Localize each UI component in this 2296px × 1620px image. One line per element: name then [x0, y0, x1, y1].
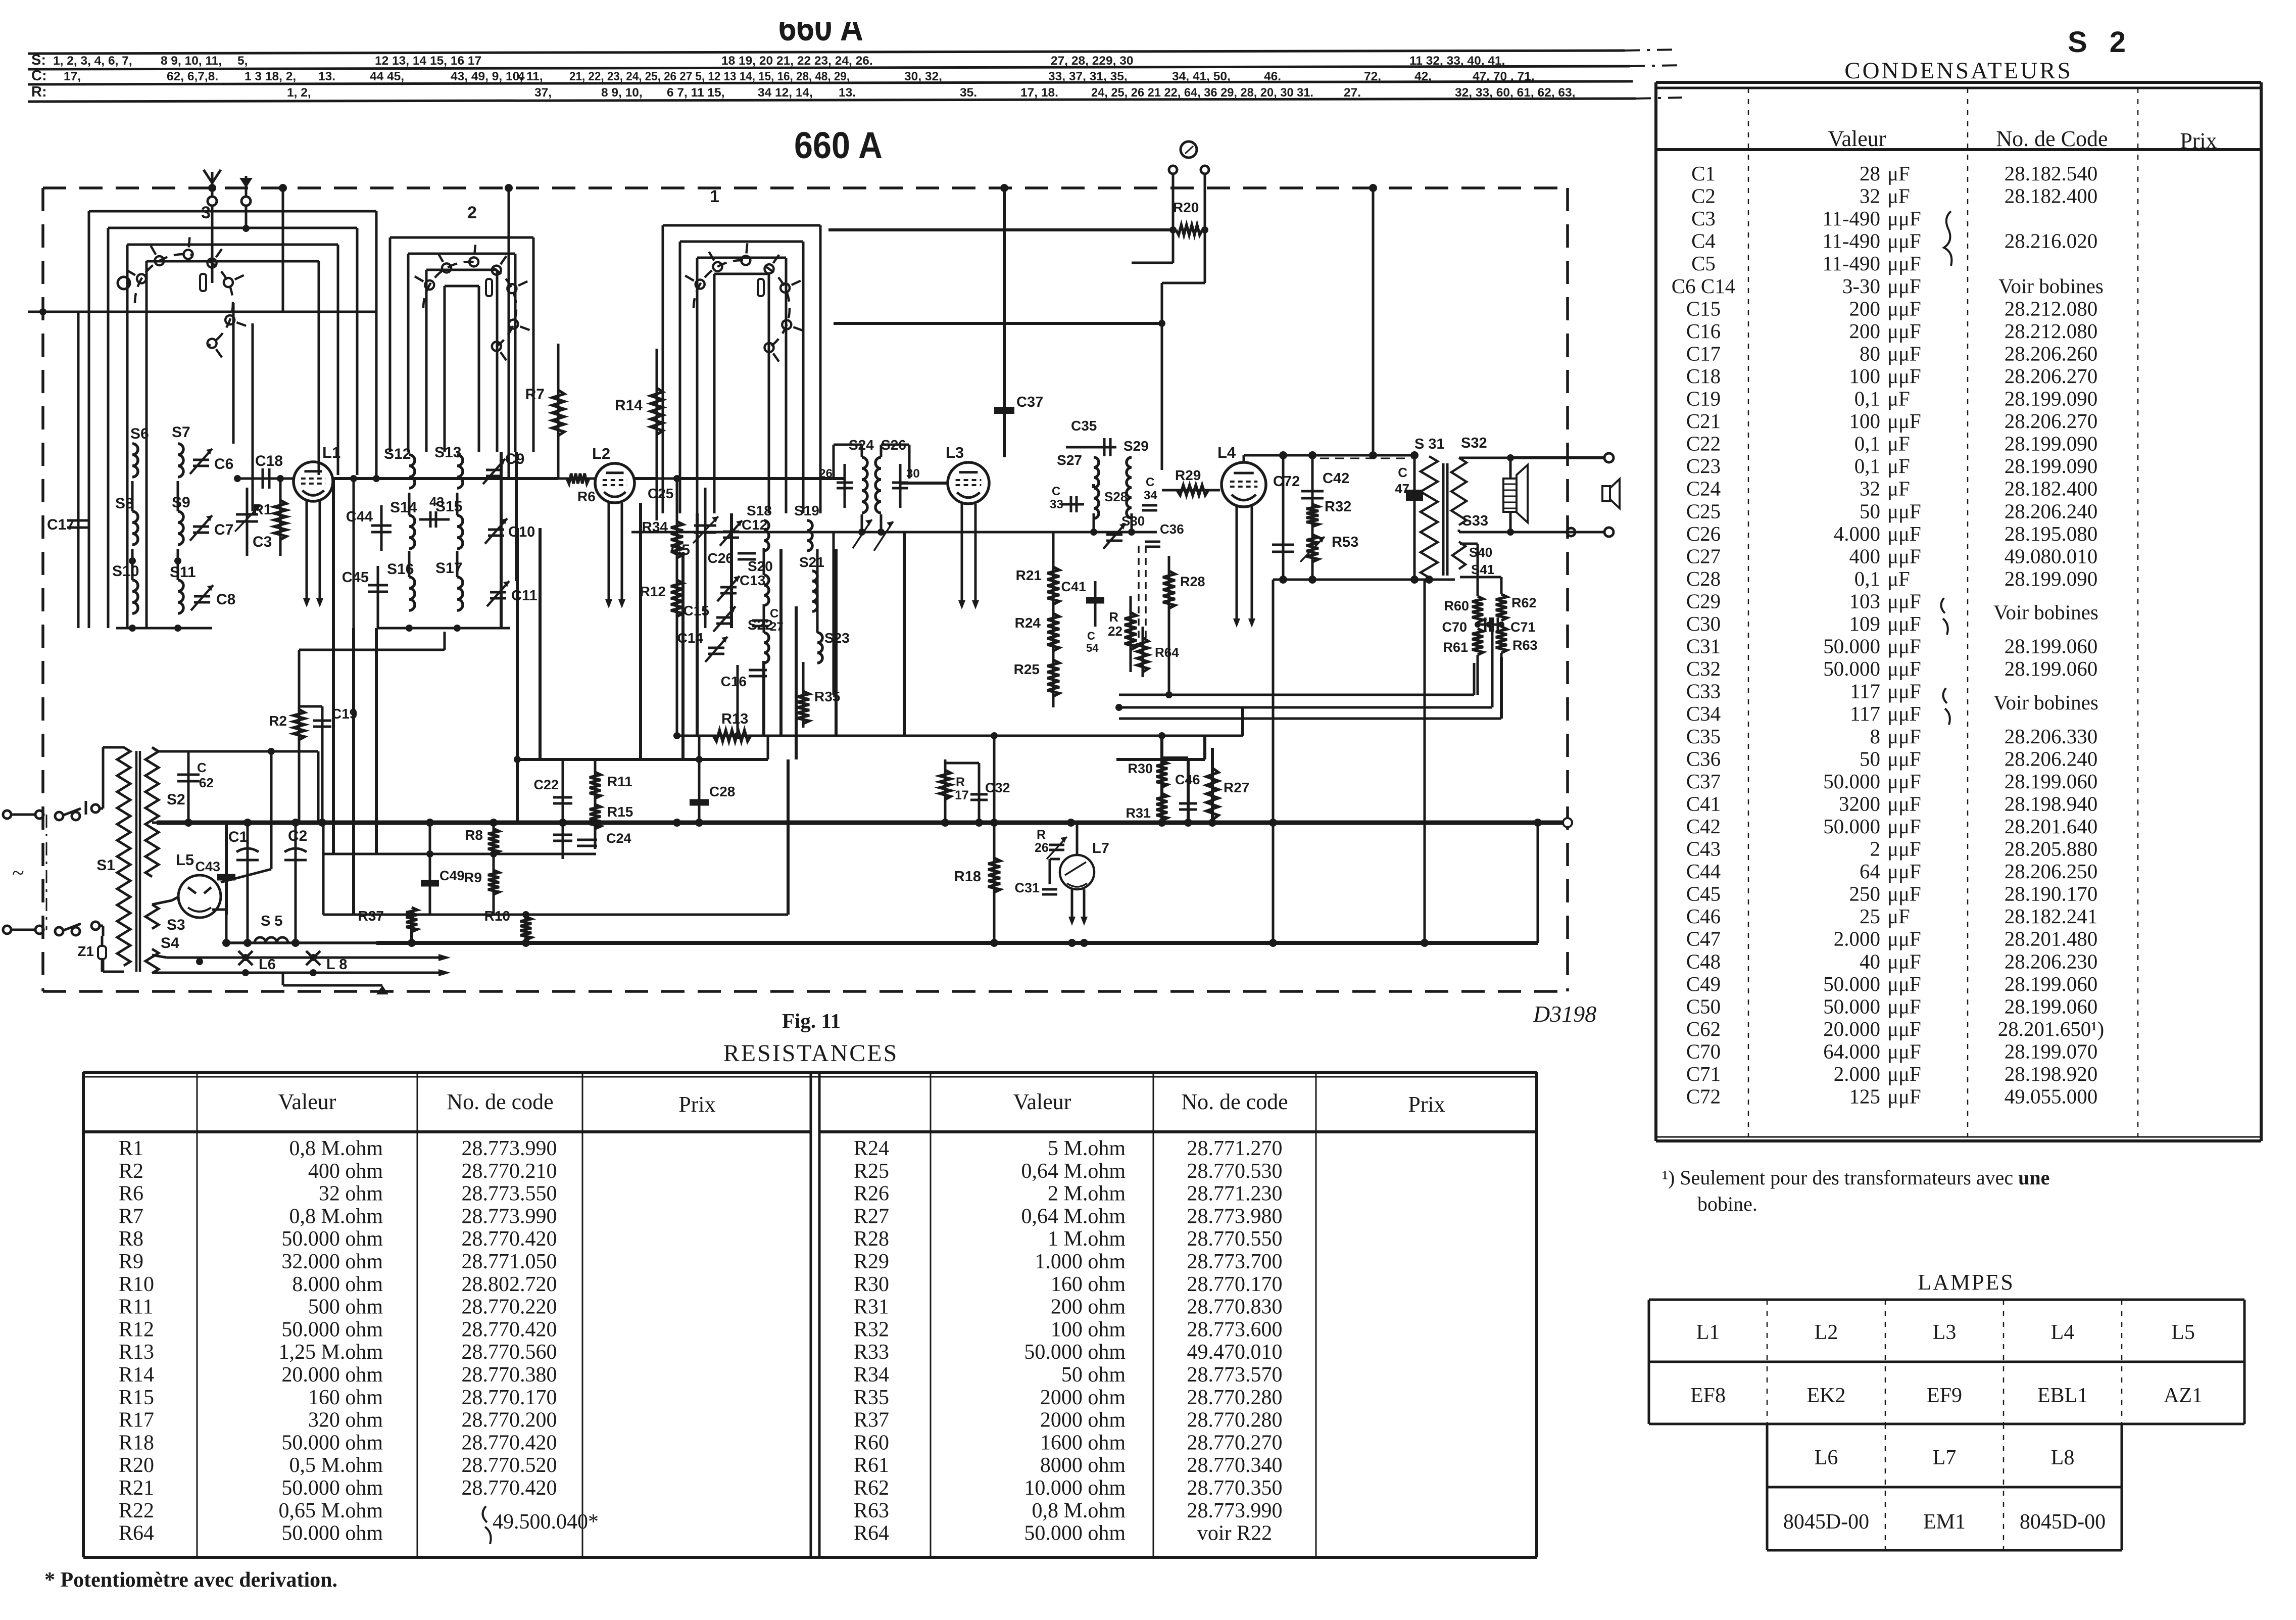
capacitor C19 — [321, 706, 324, 823]
svg-text:C44: C44 — [1686, 860, 1721, 883]
svg-text:46.: 46. — [1264, 70, 1281, 83]
svg-text:C44: C44 — [346, 509, 373, 525]
svg-text:C6: C6 — [214, 456, 233, 472]
svg-text:28.770.520: 28.770.520 — [462, 1454, 557, 1477]
svg-text:μμF: μμF — [1887, 702, 1921, 725]
svg-text:C72: C72 — [1686, 1085, 1721, 1108]
wire: dial lamp rail bottom — [167, 972, 443, 974]
svg-text:L6: L6 — [1815, 1446, 1838, 1469]
svg-text:28.770.830: 28.770.830 — [1187, 1296, 1283, 1319]
svg-text:R20: R20 — [119, 1454, 154, 1477]
wire: L3 heater leads — [961, 504, 963, 602]
svg-text:Fig. 11: Fig. 11 — [782, 1009, 841, 1032]
svg-text:R25: R25 — [854, 1160, 889, 1183]
svg-text:μμF: μμF — [1887, 657, 1921, 680]
svg-text:C45: C45 — [1686, 882, 1721, 906]
svg-text:C32: C32 — [985, 780, 1010, 795]
svg-text:C33: C33 — [1686, 680, 1721, 703]
svg-text:S2: S2 — [167, 791, 185, 808]
svg-text:μμF: μμF — [1887, 770, 1921, 793]
svg-text:R62: R62 — [854, 1476, 889, 1500]
svg-text:S27: S27 — [1057, 452, 1082, 468]
svg-text:50.000: 50.000 — [1823, 770, 1880, 793]
svg-text:No. de code: No. de code — [1181, 1089, 1288, 1114]
svg-text:C15: C15 — [1686, 297, 1721, 320]
wire: L1 heater leads — [306, 501, 308, 600]
svg-text:50: 50 — [1860, 499, 1880, 522]
svg-text:C23: C23 — [1686, 454, 1721, 478]
svg-text:μμF: μμF — [1887, 927, 1921, 950]
svg-text:C70: C70 — [1686, 1039, 1721, 1063]
svg-text:S20: S20 — [748, 558, 773, 574]
svg-text:S40: S40 — [1469, 545, 1492, 560]
svg-text:32: 32 — [1860, 184, 1880, 208]
wire: AF coupling segment — [1116, 758, 1205, 761]
capacitor C17 — [77, 312, 80, 628]
svg-text:28.773.550: 28.773.550 — [462, 1182, 557, 1206]
svg-text:R11: R11 — [119, 1296, 153, 1319]
svg-text:160 ohm: 160 ohm — [1051, 1273, 1126, 1296]
svg-text:S30: S30 — [1121, 513, 1145, 529]
svg-text:μμF: μμF — [1887, 544, 1921, 567]
wire: dial feed — [1132, 262, 1173, 264]
svg-text:100: 100 — [1849, 364, 1881, 388]
svg-text:R37: R37 — [358, 908, 384, 924]
wire: switch-3 harness box — [89, 210, 376, 213]
svg-text:1: 1 — [710, 187, 719, 206]
svg-text:μμF: μμF — [1887, 1039, 1921, 1063]
resistor R7 — [557, 344, 560, 479]
svg-text:R28: R28 — [1180, 574, 1205, 589]
svg-text:R15: R15 — [119, 1386, 154, 1409]
svg-text:C71: C71 — [1510, 620, 1536, 635]
wire: rectifier anode feed — [270, 751, 273, 869]
svg-text:C1: C1 — [1691, 162, 1716, 185]
wire: antenna lead into switch 3 — [211, 206, 214, 283]
wire: primary leads — [103, 746, 124, 749]
svg-text:28.201.480: 28.201.480 — [2005, 927, 2098, 950]
capacitor C43 — [225, 823, 228, 915]
svg-text:R63: R63 — [1512, 638, 1538, 653]
svg-text:R8: R8 — [119, 1227, 143, 1251]
fuse Z1 — [98, 946, 106, 959]
choke S5 — [255, 937, 288, 943]
svg-text:62: 62 — [199, 775, 214, 790]
svg-text:LAMPES: LAMPES — [1918, 1270, 2015, 1295]
wire: IF block verticals — [763, 548, 765, 575]
svg-text:0,1: 0,1 — [1854, 432, 1880, 455]
svg-text:EF8: EF8 — [1690, 1384, 1726, 1407]
svg-text:μμF: μμF — [1887, 297, 1921, 320]
svg-text:26: 26 — [1035, 841, 1049, 855]
svg-text:C41: C41 — [1686, 792, 1721, 815]
wire: grid feedback dashed stub — [1320, 458, 1411, 459]
resistor R6 — [558, 478, 595, 480]
svg-text:S10: S10 — [112, 563, 139, 580]
wire: C70 junction down — [1489, 625, 1492, 631]
wire: index row rule 3 — [28, 81, 1633, 84]
svg-text:C26: C26 — [1686, 522, 1721, 545]
node: output terminal top — [1604, 453, 1614, 462]
svg-text:49.055.000: 49.055.000 — [2005, 1085, 2098, 1108]
tube L7 (tuning indicator) — [1060, 855, 1094, 889]
svg-text:22: 22 — [1108, 624, 1122, 639]
svg-text:200: 200 — [1849, 297, 1881, 320]
svg-text:R32: R32 — [1325, 499, 1351, 515]
resistor R53 (pot) — [1306, 535, 1318, 562]
svg-text:L2: L2 — [1815, 1321, 1838, 1344]
svg-text:R21: R21 — [1016, 567, 1042, 583]
svg-text:28.212.080: 28.212.080 — [2005, 297, 2098, 320]
svg-text:28.773.700: 28.773.700 — [1187, 1250, 1283, 1273]
svg-text:S19: S19 — [794, 503, 819, 518]
svg-text:0,1: 0,1 — [1854, 387, 1880, 410]
speaker (external) icon — [1602, 486, 1610, 501]
resistor R21 — [1052, 532, 1055, 707]
svg-text:42,: 42, — [1414, 70, 1432, 83]
svg-text:R31: R31 — [1126, 805, 1151, 821]
wire: mains links — [11, 814, 35, 816]
svg-text:11 32, 33, 40, 41,: 11 32, 33, 40, 41, — [1409, 54, 1505, 68]
svg-text:11-490: 11-490 — [1822, 229, 1880, 253]
resistor R8 — [493, 823, 495, 915]
resistor R25 — [1047, 660, 1059, 696]
svg-text:μμF: μμF — [1887, 207, 1921, 230]
svg-text:R7: R7 — [525, 386, 545, 403]
capacitor C28 — [698, 736, 701, 823]
capacitor C9 — [486, 469, 502, 471]
node: mains selector terminals — [91, 804, 100, 813]
tube L2 — [595, 463, 634, 503]
antenna symbol — [211, 172, 214, 197]
svg-text:37,: 37, — [534, 86, 552, 100]
svg-text:S22: S22 — [748, 617, 773, 633]
svg-text:C6 C14: C6 C14 — [1672, 274, 1735, 298]
resistor R11 — [594, 759, 597, 849]
wire: long verticals mixer to AF — [516, 528, 519, 823]
svg-text:28.199.070: 28.199.070 — [2005, 1039, 2098, 1063]
wire: left horizontal feeder — [28, 311, 376, 313]
svg-text:2.000: 2.000 — [1834, 1062, 1880, 1085]
svg-text:320 ohm: 320 ohm — [308, 1409, 383, 1432]
svg-text:S14: S14 — [390, 499, 417, 516]
svg-text:C41: C41 — [1061, 579, 1086, 594]
svg-text:S 5: S 5 — [261, 913, 283, 929]
capacitor C43 — [419, 518, 450, 521]
svg-text:EK2: EK2 — [1807, 1384, 1846, 1407]
capacitor C45 — [377, 566, 379, 628]
svg-text:μμF: μμF — [1887, 274, 1921, 298]
node: output terminal bottom — [1604, 528, 1614, 537]
svg-text:R29: R29 — [1175, 467, 1201, 483]
svg-text:C29: C29 — [1686, 589, 1721, 612]
resistor R28 — [1168, 556, 1170, 695]
svg-text:C48: C48 — [1686, 949, 1721, 973]
transformer secondary S2 — [145, 747, 159, 877]
svg-text:EBL1: EBL1 — [2037, 1384, 2088, 1407]
capacitor C24 — [577, 839, 597, 841]
node: dial lamp circle — [1181, 141, 1197, 158]
svg-text:L8: L8 — [2051, 1446, 2075, 1469]
svg-text:C16: C16 — [721, 674, 747, 689]
svg-text:L3: L3 — [946, 444, 964, 461]
wire: L7 leads — [1076, 823, 1079, 855]
svg-text:C42: C42 — [1323, 470, 1349, 487]
wire: S2 top lead — [152, 747, 158, 751]
svg-text:28.773.990: 28.773.990 — [462, 1137, 557, 1160]
svg-text:50.000 ohm: 50.000 ohm — [1024, 1522, 1126, 1545]
svg-text:49.500.040*: 49.500.040* — [493, 1510, 599, 1534]
svg-text:Valeur: Valeur — [278, 1089, 336, 1114]
svg-text:R30: R30 — [854, 1273, 889, 1296]
svg-text:R33: R33 — [854, 1341, 889, 1364]
svg-text:C37: C37 — [1686, 770, 1721, 793]
svg-text:64: 64 — [1860, 860, 1880, 883]
svg-text:C35: C35 — [1071, 418, 1097, 434]
resistor R9 — [488, 870, 499, 894]
tube L5 (rectifier) — [178, 875, 221, 918]
svg-text:R2: R2 — [269, 713, 287, 729]
svg-text:3: 3 — [201, 203, 211, 222]
resistor R27 — [1211, 748, 1214, 823]
switch S bank 3 — [135, 254, 192, 303]
svg-text:μμF: μμF — [1887, 747, 1921, 770]
svg-text:20.000 ohm: 20.000 ohm — [281, 1363, 383, 1387]
svg-text:28.206.270: 28.206.270 — [2005, 364, 2098, 388]
svg-text:28.199.060: 28.199.060 — [2005, 635, 2098, 658]
svg-text:34: 34 — [1144, 489, 1157, 502]
svg-text:S28: S28 — [1104, 489, 1128, 504]
wire: anode line to IF1 — [677, 477, 845, 480]
svg-text:200 ohm: 200 ohm — [1051, 1296, 1126, 1319]
svg-text:28.771.270: 28.771.270 — [1187, 1137, 1283, 1160]
svg-text:32 ohm: 32 ohm — [319, 1182, 383, 1206]
coil S16 and S17 — [409, 577, 415, 610]
svg-text:28.182.400: 28.182.400 — [2005, 184, 2098, 208]
svg-text:28.206.330: 28.206.330 — [2005, 725, 2098, 748]
resistor R37 — [410, 915, 413, 943]
svg-text:64.000: 64.000 — [1823, 1039, 1880, 1063]
svg-text:660 A: 660 A — [794, 124, 883, 166]
svg-text:C36: C36 — [1160, 521, 1184, 537]
svg-text:4: 4 — [518, 70, 525, 83]
wire: vertical risers — [282, 188, 284, 312]
svg-text:μμF: μμF — [1887, 1085, 1921, 1108]
svg-text:C25: C25 — [648, 486, 673, 501]
svg-text:C46: C46 — [1175, 772, 1200, 787]
capacitor C41 — [1094, 581, 1097, 627]
svg-text:44 45,: 44 45, — [370, 70, 404, 83]
svg-text:C30: C30 — [1686, 612, 1721, 635]
capacitor C1 — [247, 823, 249, 943]
svg-text:28: 28 — [1860, 162, 1880, 185]
node: index rule dash-dot tails — [1625, 50, 1677, 51]
svg-text:50.000 ohm: 50.000 ohm — [281, 1431, 383, 1454]
svg-text:28.770.210: 28.770.210 — [462, 1160, 557, 1183]
capacitor C29 — [844, 464, 846, 508]
capacitor C14 — [708, 647, 724, 649]
svg-text:R27: R27 — [1224, 780, 1249, 795]
svg-text:R63: R63 — [854, 1499, 889, 1522]
transformer winding S4 — [145, 949, 159, 973]
svg-text:18 19, 20 21, 22 23,: 18 19, 20 21, 22 23, 24, 26. — [721, 54, 873, 68]
wire: schematic dashed border bottom — [43, 990, 1568, 993]
svg-text:R35: R35 — [854, 1386, 889, 1409]
wire: index row rule 1 — [28, 51, 1625, 54]
svg-text:28.199.060: 28.199.060 — [2005, 994, 2098, 1018]
capacitor C16 — [749, 669, 767, 672]
capacitor C11 — [490, 591, 506, 594]
svg-text:C19: C19 — [1686, 387, 1721, 410]
svg-text:109: 109 — [1849, 612, 1881, 635]
coil S20 — [764, 575, 769, 605]
svg-text:21, 22, 23, 24, 25, 26 27 5,: 21, 22, 23, 24, 25, 26 27 5, 12 13 14, 1… — [569, 70, 850, 83]
svg-text:C42: C42 — [1686, 815, 1721, 838]
node: IF1 tuning arrows — [853, 519, 872, 548]
svg-text:S29: S29 — [1123, 438, 1149, 454]
resistor R24 — [1047, 613, 1059, 651]
svg-text:17: 17 — [955, 788, 969, 802]
svg-text:R34: R34 — [854, 1363, 889, 1387]
svg-text:C: C — [197, 760, 207, 775]
capacitor C37 — [1003, 188, 1006, 457]
svg-text:CONDENSATEURS: CONDENSATEURS — [1844, 58, 2073, 84]
resistor R34 — [676, 479, 678, 736]
svg-text:28.770.170: 28.770.170 — [462, 1386, 557, 1409]
svg-text:5,: 5, — [237, 54, 248, 68]
svg-text:μμF: μμF — [1887, 342, 1921, 365]
svg-text:11-490: 11-490 — [1822, 207, 1880, 230]
svg-text:AZ1: AZ1 — [2164, 1384, 2203, 1407]
svg-text:2 M.ohm: 2 M.ohm — [1048, 1182, 1126, 1206]
svg-text:C11: C11 — [511, 588, 538, 604]
svg-text:voir R22: voir R22 — [1197, 1522, 1272, 1545]
svg-text:1.000 ohm: 1.000 ohm — [1035, 1250, 1126, 1273]
svg-text:L4: L4 — [2051, 1321, 2075, 1344]
svg-text:8 9, 10, 11,: 8 9, 10, 11, — [161, 54, 222, 68]
svg-text:μμF: μμF — [1887, 499, 1921, 522]
svg-text:C2: C2 — [1691, 184, 1716, 208]
svg-text:C13: C13 — [740, 573, 765, 588]
svg-text:28.771.050: 28.771.050 — [462, 1250, 557, 1273]
svg-text:C28: C28 — [1686, 567, 1721, 590]
svg-text:R24: R24 — [854, 1137, 889, 1160]
svg-text:C21: C21 — [1686, 409, 1721, 433]
wire: L4 anode line — [1243, 455, 1245, 462]
svg-text:R10: R10 — [484, 908, 510, 924]
svg-text:R9: R9 — [119, 1250, 143, 1273]
svg-text:R27: R27 — [854, 1205, 889, 1228]
transformer primary S31 — [1421, 456, 1438, 578]
svg-text:C: C — [1087, 630, 1095, 642]
wire: S32 to speaker — [1459, 457, 1510, 459]
wire: L5 filament to S3 — [152, 900, 172, 904]
svg-text:R37: R37 — [854, 1409, 889, 1432]
capacitor C30 — [899, 464, 902, 508]
svg-text:C3: C3 — [253, 534, 272, 550]
svg-text:0,64 M.ohm: 0,64 M.ohm — [1021, 1205, 1126, 1228]
trimmer S30 — [1106, 534, 1122, 536]
svg-text:C24: C24 — [1686, 477, 1721, 500]
svg-text:28.770.420: 28.770.420 — [462, 1476, 557, 1500]
svg-text:C70: C70 — [1442, 620, 1467, 635]
svg-text:28.770.350: 28.770.350 — [1187, 1476, 1283, 1500]
capacitor C15 — [716, 616, 732, 619]
svg-text:10.000 ohm: 10.000 ohm — [1024, 1476, 1126, 1500]
svg-text:S12: S12 — [384, 446, 411, 462]
svg-text:R29: R29 — [854, 1250, 889, 1273]
svg-text:S 31: S 31 — [1414, 436, 1445, 452]
svg-text:33, 37, 31, 35,: 33, 37, 31, 35, — [1048, 70, 1128, 83]
svg-text:L3: L3 — [1933, 1321, 1957, 1344]
svg-text:28.773.570: 28.773.570 — [1187, 1363, 1283, 1387]
wire: switch-2 harness box — [390, 236, 533, 239]
svg-text:C50: C50 — [1686, 994, 1721, 1018]
svg-text:28.212.080: 28.212.080 — [2005, 319, 2098, 343]
wire: mains to primary — [99, 807, 103, 810]
svg-text:L1: L1 — [322, 444, 340, 461]
speaker S33 — [1503, 479, 1517, 512]
svg-text:0,1: 0,1 — [1854, 567, 1880, 590]
svg-text:8000 ohm: 8000 ohm — [1040, 1454, 1126, 1477]
svg-text:47, 70 , 71,: 47, 70 , 71, — [1473, 70, 1535, 83]
svg-text:μμF: μμF — [1887, 860, 1921, 883]
tube L3 — [948, 462, 989, 504]
svg-text:C34: C34 — [1686, 702, 1721, 725]
svg-text:C14: C14 — [677, 630, 704, 646]
svg-text:R60: R60 — [1444, 598, 1469, 613]
capacitor C36 — [1145, 541, 1160, 543]
svg-text:28.206.260: 28.206.260 — [2005, 342, 2098, 365]
transformer core — [1442, 463, 1445, 576]
svg-text:L5: L5 — [176, 851, 194, 869]
svg-text:35.: 35. — [960, 86, 977, 100]
wire: ground lead — [245, 206, 248, 228]
svg-text:0,65 M.ohm: 0,65 M.ohm — [278, 1499, 383, 1522]
capacitor C13 — [720, 586, 737, 589]
svg-text:R62: R62 — [1511, 595, 1537, 610]
svg-text:Voir bobines: Voir bobines — [1993, 691, 2098, 714]
svg-text:20.000: 20.000 — [1823, 1017, 1880, 1040]
svg-text:μμF: μμF — [1887, 364, 1921, 388]
wire: mid rail 1810 — [323, 914, 788, 916]
svg-text:μμF: μμF — [1887, 815, 1921, 838]
svg-text:28.199.060: 28.199.060 — [2005, 657, 2098, 680]
svg-text:0,8 M.ohm: 0,8 M.ohm — [289, 1205, 383, 1228]
wire: transformer bottom riser — [1424, 580, 1426, 943]
transformer core (mains) — [135, 751, 138, 972]
svg-text:R12: R12 — [119, 1318, 154, 1341]
svg-text:R60: R60 — [854, 1431, 889, 1454]
svg-text:Valeur: Valeur — [1013, 1089, 1071, 1114]
svg-text:R31: R31 — [854, 1296, 889, 1319]
svg-text:~: ~ — [12, 861, 24, 885]
svg-text:C72: C72 — [1273, 473, 1300, 490]
wire: extra switch harness drops — [696, 513, 699, 736]
wire: L5 cathode to bus — [212, 909, 226, 911]
svg-text:EF9: EF9 — [1927, 1384, 1962, 1407]
resistor R35 — [802, 662, 805, 728]
ground terminal — [241, 197, 251, 206]
svg-text:32.000 ohm: 32.000 ohm — [281, 1250, 383, 1273]
svg-text:50.000 ohm: 50.000 ohm — [1024, 1341, 1126, 1364]
resistor R30 — [1160, 736, 1163, 823]
svg-text:C43: C43 — [1686, 837, 1721, 861]
svg-text:C17: C17 — [47, 516, 75, 533]
svg-text:50.000 ohm: 50.000 ohm — [281, 1522, 383, 1545]
svg-text:C17: C17 — [1686, 342, 1721, 365]
svg-text:72,: 72, — [1364, 70, 1381, 83]
